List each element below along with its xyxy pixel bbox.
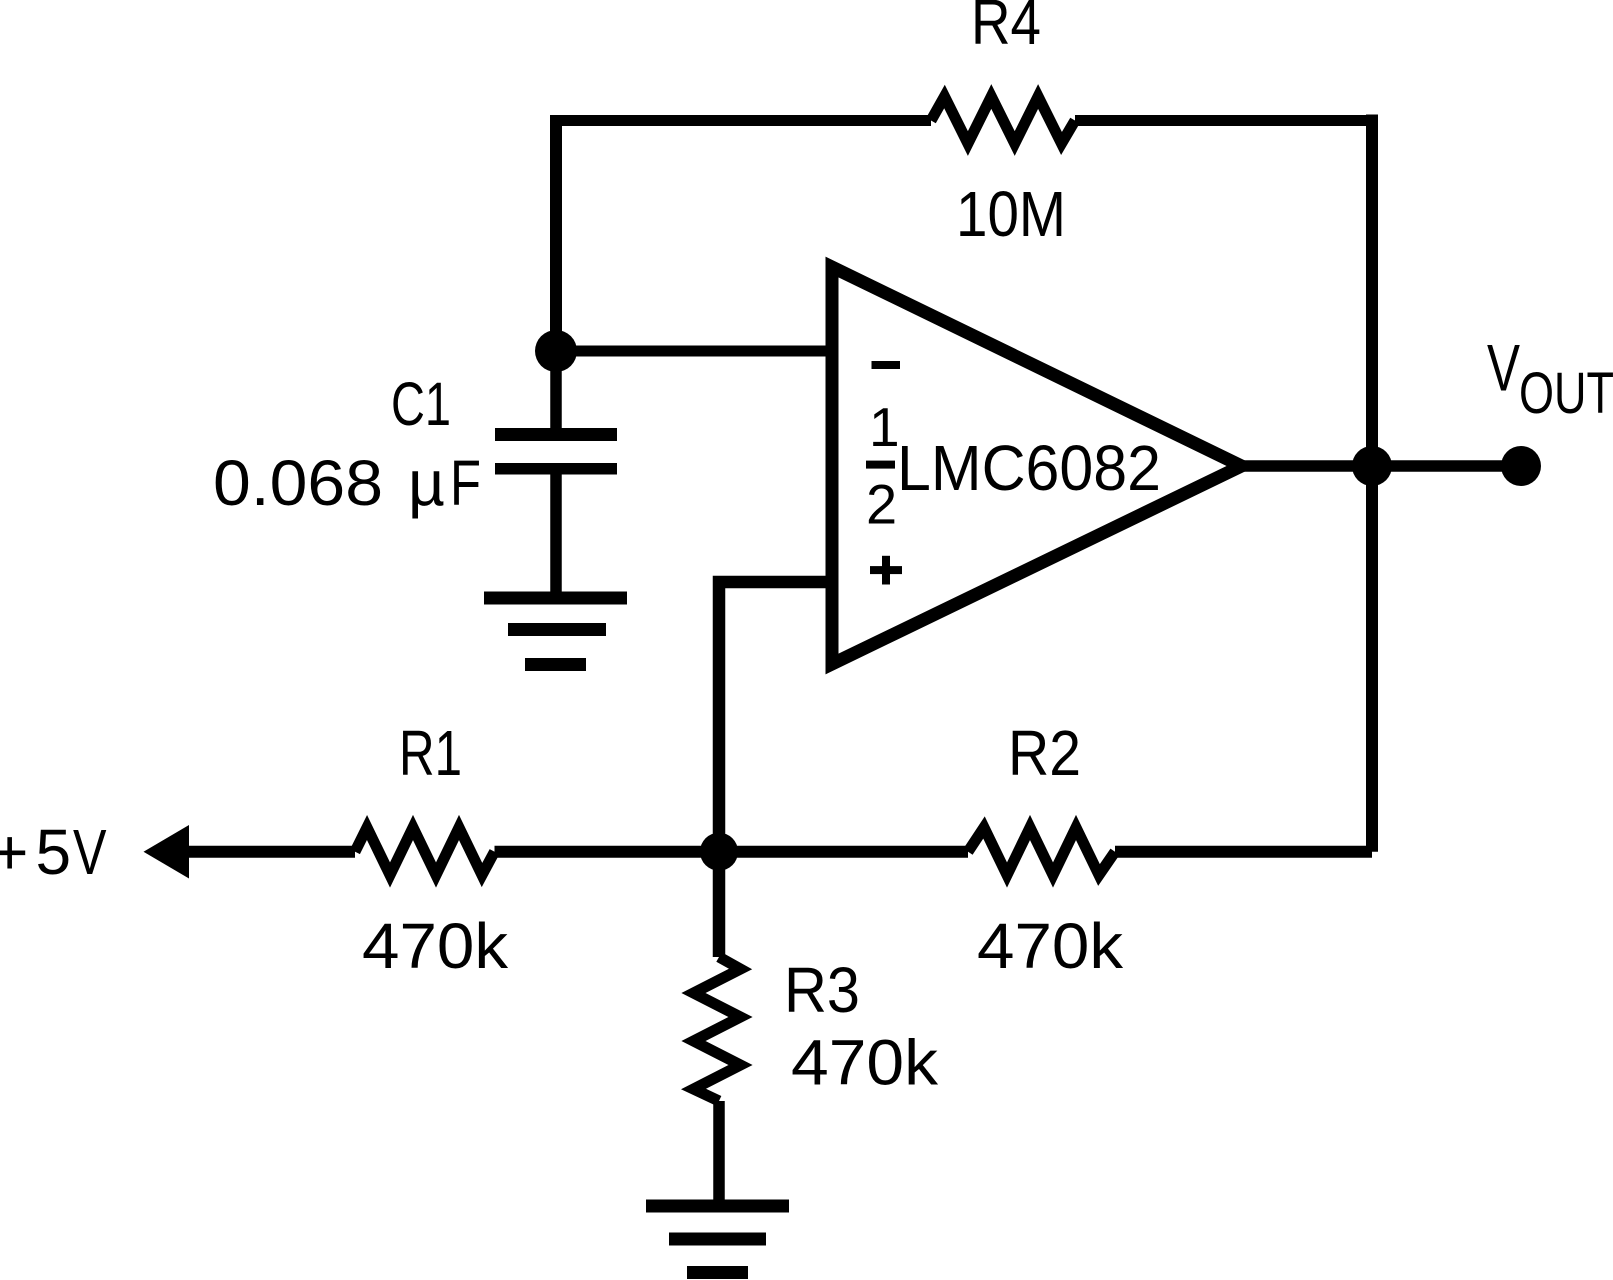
svg-text:R2: R2 [1008,717,1081,789]
svg-text:µ: µ [408,447,445,519]
op-amp U1 (1/2 LMC6082) [832,267,1242,664]
svg-text:V: V [1487,331,1520,405]
resistor R2 [968,828,1115,876]
svg-text:R3: R3 [784,954,860,1026]
svg-text:C1: C1 [391,370,451,438]
ground (below R3) [646,1206,789,1273]
svg-text:0.068: 0.068 [213,447,383,519]
plus input symbol [870,566,902,574]
wire: non-inverting input [719,582,832,852]
svg-text:470k: 470k [362,910,509,982]
wire: top feedback run, left segment [550,121,931,357]
wire: R1 to center node [495,846,969,858]
wire: top feedback run, right segment + right vertical [1075,115,1378,126]
svg-text:10M: 10M [956,178,1066,250]
node B: center junction [700,833,738,871]
node: output junction [1352,446,1392,486]
svg-text:R1: R1 [399,717,462,789]
svg-text:F: F [450,447,481,519]
svg-text:5: 5 [36,816,72,888]
resistor R1 [355,828,495,876]
svg-text:1: 1 [869,396,900,458]
wire: junction to op-amp inverting input [556,346,832,357]
capacitor C1 [495,351,617,598]
svg-text:+: + [0,816,28,888]
svg-text:R4: R4 [971,0,1041,58]
resistor R4 [931,97,1075,144]
node A: inverting input junction [535,330,577,372]
svg-text:OUT: OUT [1519,361,1613,426]
svg-text:470k: 470k [977,910,1124,982]
+5V arrow [144,825,190,879]
wire: +5V to R1 [185,846,355,858]
wire: R3 to ground [713,1101,725,1206]
svg-text:LMC6082: LMC6082 [897,432,1161,504]
svg-text:470k: 470k [791,1027,939,1099]
minus input symbol [872,361,901,369]
wire: op-amp output to terminal [1244,460,1521,472]
resistor R3 [694,957,741,1101]
wire: R2 to right vertical [1115,846,1372,858]
svg-text:V: V [73,816,107,888]
svg-text:2: 2 [866,473,897,536]
ground (below C1) [484,598,627,665]
wire: center node down to R3 [713,852,726,957]
terminal VOUT dot [1501,446,1541,486]
